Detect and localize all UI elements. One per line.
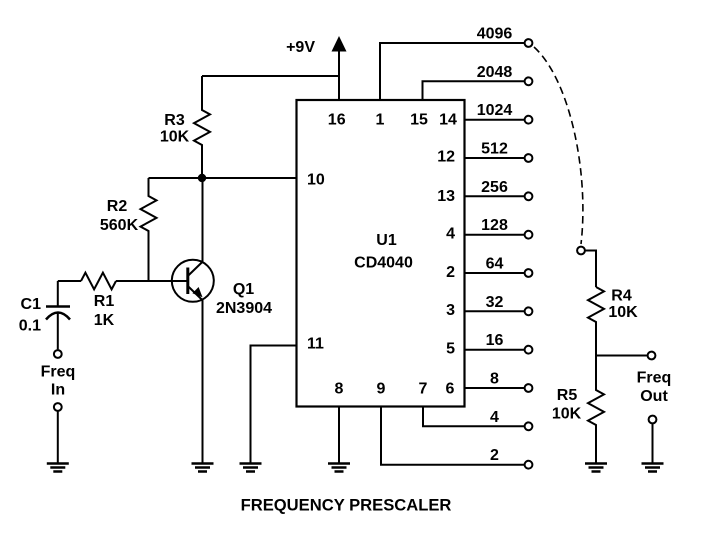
wire pin 13 to 256 — [465, 195, 525, 197]
svg-text:R1: R1 — [94, 293, 115, 310]
wire +9V rail to R3 — [202, 75, 339, 77]
ground (Q1 emitter) — [192, 464, 214, 472]
svg-text:64: 64 — [486, 256, 504, 273]
svg-text:2048: 2048 — [477, 64, 513, 81]
resistor R2 — [100, 178, 157, 281]
svg-text:32: 32 — [486, 294, 504, 311]
terminal 2048 — [477, 64, 533, 85]
resistor R1 — [81, 273, 116, 329]
ground (R5) — [585, 464, 607, 472]
wire Freq Out lower terminal to ground — [652, 424, 654, 463]
resistor R5 — [552, 356, 604, 463]
svg-text:+9V: +9V — [286, 39, 315, 56]
svg-text:4: 4 — [490, 409, 499, 426]
svg-text:0.1: 0.1 — [19, 318, 41, 335]
wire node to pin 10 and to R2 — [149, 177, 297, 179]
ground (Freq In) — [47, 464, 69, 472]
terminal 512 — [481, 141, 532, 162]
Freq Out terminal — [637, 352, 672, 424]
divider input terminal — [577, 247, 585, 255]
svg-text:7: 7 — [419, 381, 428, 398]
wire emitter to ground — [202, 300, 204, 463]
wire R1 to Q1 base — [116, 280, 187, 282]
terminal 1024 — [477, 102, 533, 123]
svg-text:CD4040: CD4040 — [354, 255, 413, 272]
wire pin 2 to 64 — [465, 272, 525, 274]
svg-text:C1: C1 — [21, 296, 42, 313]
svg-text:2: 2 — [490, 447, 499, 464]
dashed link wire 4096 to divider — [534, 47, 583, 244]
Freq In terminal — [41, 350, 76, 411]
svg-text:U1: U1 — [376, 232, 397, 249]
svg-text:512: 512 — [481, 141, 508, 158]
wire pin 9 to 2 — [381, 407, 524, 465]
terminal 4096 — [477, 26, 533, 47]
svg-text:10K: 10K — [552, 406, 582, 423]
ground (pin 11) — [240, 464, 262, 472]
svg-text:4: 4 — [446, 226, 455, 243]
wire pin 1 to 4096 — [380, 43, 524, 100]
power +9V symbol — [286, 36, 346, 100]
svg-text:12: 12 — [437, 149, 455, 166]
terminal 128 — [481, 217, 532, 238]
svg-text:1024: 1024 — [477, 102, 513, 119]
svg-text:10: 10 — [307, 172, 325, 189]
wire pin 4 to 128 — [465, 234, 525, 236]
terminal 32 — [486, 294, 533, 315]
ground (pin 8) — [328, 464, 350, 472]
resistor R3 — [160, 76, 210, 176]
terminal 2 — [490, 447, 532, 468]
svg-text:16: 16 — [328, 112, 346, 129]
wire terminal to R4 — [585, 251, 596, 288]
wire pin 6 to 8 — [465, 387, 525, 389]
svg-text:R4: R4 — [611, 288, 632, 305]
terminal 16 — [486, 332, 533, 353]
svg-text:3: 3 — [446, 302, 455, 319]
svg-text:Out: Out — [640, 388, 668, 405]
svg-text:1K: 1K — [94, 312, 115, 329]
svg-text:6: 6 — [446, 381, 455, 398]
terminal 8 — [490, 371, 532, 392]
wire pin 11 to ground — [251, 346, 297, 463]
wire pin 3 to 32 — [465, 310, 525, 312]
wire pin 8 to ground — [338, 407, 340, 463]
svg-text:Freq: Freq — [41, 364, 76, 381]
svg-text:10K: 10K — [160, 129, 190, 146]
terminal 256 — [481, 179, 532, 200]
svg-text:128: 128 — [481, 217, 508, 234]
node A junction dot — [198, 174, 206, 182]
capacitor C1 — [19, 281, 70, 349]
svg-text:4096: 4096 — [477, 26, 513, 43]
wire C1 to R1 — [58, 280, 81, 282]
terminal 4 — [490, 409, 532, 430]
wire pin 7 to 4 — [423, 407, 524, 427]
wire Freq In to ground — [57, 412, 59, 463]
svg-text:2: 2 — [446, 264, 455, 281]
wire pin 15 to 2048 — [423, 81, 525, 100]
svg-text:14: 14 — [439, 112, 457, 129]
svg-text:10K: 10K — [608, 304, 638, 321]
svg-text:1: 1 — [376, 112, 385, 129]
svg-text:5: 5 — [446, 341, 455, 358]
svg-text:8: 8 — [490, 371, 499, 388]
wire pin 14 to 1024 — [465, 119, 525, 121]
svg-text:9: 9 — [377, 381, 386, 398]
svg-text:16: 16 — [486, 332, 504, 349]
transistor Q1 — [172, 260, 272, 317]
terminal 64 — [486, 256, 533, 277]
wire divider tap to Freq Out — [596, 355, 647, 357]
svg-text:R3: R3 — [164, 112, 185, 129]
svg-text:R2: R2 — [107, 198, 128, 215]
ground (Freq Out) — [642, 464, 664, 472]
svg-text:FREQUENCY PRESCALER: FREQUENCY PRESCALER — [241, 496, 452, 515]
svg-text:In: In — [51, 382, 65, 399]
svg-text:560K: 560K — [100, 217, 139, 234]
wire collector to node — [202, 178, 204, 262]
wire pin 12 to 512 — [465, 157, 525, 159]
resistor R4 — [588, 287, 638, 356]
svg-text:R5: R5 — [557, 387, 578, 404]
wire pin 5 to 16 — [465, 349, 525, 351]
svg-text:13: 13 — [437, 188, 455, 205]
svg-text:Freq: Freq — [637, 370, 672, 387]
svg-text:Q1: Q1 — [233, 281, 254, 298]
svg-text:256: 256 — [481, 179, 508, 196]
IC U1 CD4040 box — [297, 100, 465, 407]
svg-text:8: 8 — [335, 381, 344, 398]
svg-text:11: 11 — [307, 336, 324, 353]
svg-text:2N3904: 2N3904 — [216, 300, 272, 317]
svg-text:15: 15 — [410, 112, 428, 129]
